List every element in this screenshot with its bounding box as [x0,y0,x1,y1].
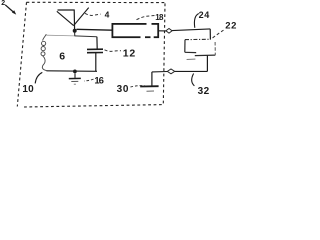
label 18 [137,13,165,22]
wire below capacitor [95,53,97,71]
terminal bar 30 [140,85,158,87]
svg-text:24: 24 [199,10,210,20]
dashed enclosure border (right) [163,3,165,104]
svg-text:10: 10 [22,84,34,95]
loop top wire (left faint) [46,34,74,37]
label 10 [22,72,42,95]
loop bottom wire [46,70,97,73]
capacitor 12 top plate [87,48,103,50]
ground 16 stub [74,73,76,78]
feed below node dot [74,33,76,37]
wire to right corner [172,29,210,31]
svg-text:4: 4 [105,10,110,20]
connector diamond (bottom crossing) [167,69,174,74]
box 18 [112,24,158,37]
wire loop right side [96,37,98,49]
wire box 18 to border [158,30,166,32]
dashed enclosure border (left) [17,2,26,106]
label 16 [84,76,104,87]
capacitor 12 bottom plate [87,52,103,54]
label 4 [85,10,110,20]
ground 16 bar [69,77,81,79]
label 32 [192,74,210,98]
svg-text:16: 16 [94,76,103,87]
label 12 [105,48,136,60]
node dot (bottom junction) [73,70,77,74]
wire box 22 down [206,55,208,71]
inductor 10 (coil) [41,34,47,70]
label 22 [213,21,238,39]
dashed enclosure border (top) [27,1,165,3]
svg-text:6: 6 [59,51,65,63]
wire diamond to corner [152,71,167,73]
svg-text:18: 18 [155,13,164,22]
label 2 [1,0,16,15]
antenna 4 [57,8,89,31]
wire bottom run to diamond [175,70,208,72]
svg-text:2: 2 [1,0,5,7]
wire node to box 18 [77,28,113,31]
box 22 [185,39,216,59]
node dot (antenna feed junction) [73,29,77,33]
connector diamond (top crossing) [166,29,172,34]
loop top wire (right) [75,35,97,38]
label 24 [194,10,209,28]
svg-text:22: 22 [225,21,237,32]
wire down to terminal 30 [151,72,153,86]
label 30 [117,84,145,95]
dashed enclosure border (bottom) [24,105,163,107]
svg-text:30: 30 [117,84,130,95]
svg-text:32: 32 [198,86,210,97]
wire 24 (vertical into box 22) [209,29,211,40]
svg-text:12: 12 [123,48,136,60]
